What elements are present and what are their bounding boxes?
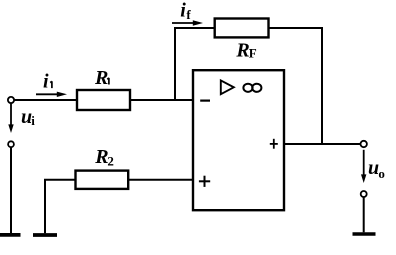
wire R1 to op-amp inverting input xyxy=(130,99,194,101)
wire to RF left xyxy=(174,27,215,29)
resistor RF xyxy=(215,19,269,38)
label RF xyxy=(235,39,256,61)
label R1 xyxy=(94,67,109,89)
arrow if xyxy=(172,20,203,25)
wire feedback left vertical xyxy=(174,27,176,101)
wire lower input to ground xyxy=(10,147,12,233)
label ui xyxy=(21,106,35,128)
ground (below R2) xyxy=(33,233,57,237)
svg-text:i: i xyxy=(180,0,186,21)
op-amp non-inverting input plus xyxy=(199,176,210,187)
node output terminal (lower) xyxy=(361,191,367,197)
op-amp infinity gain symbol xyxy=(243,84,261,92)
op-amp inverting input minus xyxy=(200,99,210,101)
wire input to R1 xyxy=(14,99,77,101)
op-amp U1 box xyxy=(193,70,284,210)
arrow i1 xyxy=(36,92,67,97)
wire op-amp output xyxy=(284,143,360,145)
svg-text:f: f xyxy=(186,7,191,22)
wire R2 left with corner down to ground xyxy=(45,180,76,234)
label R2 xyxy=(94,146,114,168)
wire lower output to ground xyxy=(363,197,365,232)
label if xyxy=(180,0,191,22)
resistor R2 xyxy=(76,171,129,189)
node input terminal (lower) xyxy=(8,141,14,147)
arrow uo polarity xyxy=(361,150,366,183)
svg-text:2: 2 xyxy=(107,153,114,168)
resistor R1 xyxy=(77,90,130,110)
label i1 xyxy=(43,71,52,93)
arrow ui polarity xyxy=(8,104,13,133)
svg-text:o: o xyxy=(378,166,385,181)
svg-text:i: i xyxy=(31,113,35,128)
svg-text:F: F xyxy=(249,45,257,60)
op-amp output plus polarity xyxy=(270,139,278,149)
node output terminal (upper) xyxy=(361,141,367,147)
label uo xyxy=(368,157,385,181)
node input terminal (upper) xyxy=(8,97,14,103)
svg-text:i: i xyxy=(43,71,49,93)
ground (input) xyxy=(0,233,21,237)
svg-text:R: R xyxy=(94,67,108,89)
wire RF right to output node xyxy=(269,28,323,145)
wire R2 to op-amp non-inverting input xyxy=(128,179,194,181)
op-amp triangle symbol xyxy=(221,80,234,94)
ground (output) xyxy=(353,232,376,236)
svg-text:R: R xyxy=(235,39,249,61)
